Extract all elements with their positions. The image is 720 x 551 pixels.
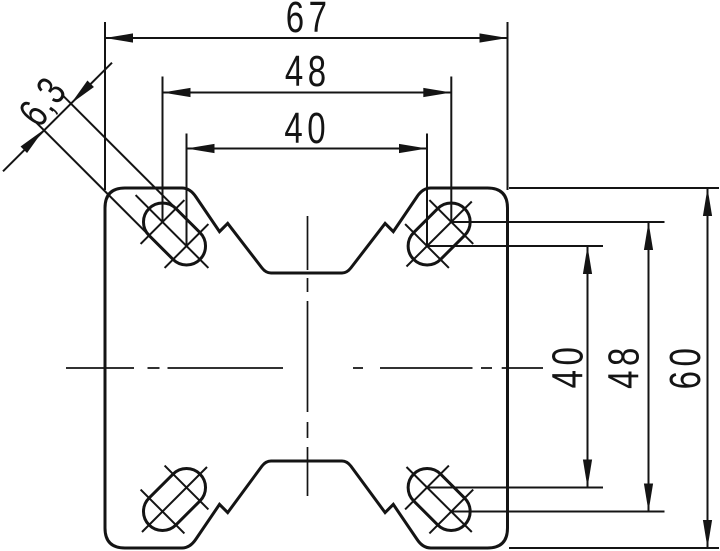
arrow 48 left bbox=[163, 88, 191, 97]
svg-text:40: 40 bbox=[544, 343, 593, 389]
arrow v48 bottom bbox=[644, 484, 653, 512]
dim 48 line bbox=[163, 92, 452, 94]
dim 67 line bbox=[105, 37, 508, 39]
svg-text:48: 48 bbox=[600, 343, 649, 389]
right ext line 40 bottom bbox=[427, 487, 603, 489]
slot top-left bbox=[136, 195, 214, 273]
dim 40 line bbox=[187, 148, 428, 150]
slot TR axis line bbox=[407, 202, 472, 267]
slot bottom-right bbox=[400, 461, 478, 539]
svg-text:60: 60 bbox=[662, 344, 711, 390]
slot BL cross at 40-center bbox=[165, 466, 209, 510]
slot bottom-left bbox=[136, 461, 214, 539]
dim 60 vertical line bbox=[707, 188, 709, 548]
dim 48 vertical line bbox=[648, 222, 650, 512]
slot BR axis line bbox=[407, 467, 472, 532]
centerline vertical bbox=[307, 216, 309, 496]
slot BL axis line bbox=[142, 467, 207, 532]
arrow v60 bottom bbox=[703, 520, 712, 548]
arrow 40 right bbox=[399, 144, 427, 153]
dim 67 ext line left bbox=[104, 22, 106, 190]
slot TL cross at 40-center bbox=[165, 224, 209, 268]
centerline horizontal bbox=[66, 367, 543, 369]
dim 6.3 ext line upper bbox=[62, 95, 176, 209]
arrow 67 right bbox=[480, 33, 508, 42]
svg-text:67: 67 bbox=[286, 0, 332, 42]
plate outline bbox=[105, 188, 508, 548]
arrow 40 left bbox=[187, 144, 215, 153]
dim 6.3 line bbox=[3, 63, 112, 172]
arrow v48 top bbox=[644, 222, 653, 250]
slot TL axis line bbox=[136, 195, 209, 268]
arrow v40 bottom bbox=[583, 460, 592, 488]
arrow 6.3 lower (points NE) bbox=[21, 127, 47, 153]
arrow 6.3 upper (points SW) bbox=[68, 81, 94, 107]
arrow v60 top bbox=[703, 188, 712, 216]
svg-text:48: 48 bbox=[285, 48, 331, 97]
right ext line bottom (60) bbox=[509, 547, 719, 549]
right ext line 48 bottom bbox=[451, 511, 664, 513]
slot BR cross at 40-center bbox=[405, 466, 449, 510]
slot BL cross at 48-center bbox=[141, 490, 185, 534]
dim 40 ext line left bbox=[186, 134, 188, 247]
arrow v40 top bbox=[583, 246, 592, 274]
slot top-right bbox=[400, 195, 478, 273]
dim 67 ext line right bbox=[507, 22, 509, 190]
slot BR cross at 48-center bbox=[429, 490, 473, 534]
arrow 67 left bbox=[105, 33, 133, 42]
right ext line 40 top bbox=[427, 245, 603, 247]
right ext line 48 top bbox=[451, 221, 664, 223]
dim 40 vertical line bbox=[587, 246, 589, 488]
slot TR cross at 40-center bbox=[405, 224, 449, 268]
dim 40 ext line right bbox=[426, 134, 428, 247]
arrow 48 right bbox=[423, 88, 451, 97]
slot TL cross at 48-center bbox=[141, 200, 185, 244]
dim 6.3 ext line lower bbox=[35, 121, 149, 235]
dim 48 ext line right bbox=[450, 77, 452, 223]
slot TR cross at 48-center bbox=[429, 200, 473, 244]
dim 48 ext line left bbox=[162, 77, 164, 223]
svg-text:40: 40 bbox=[284, 105, 330, 154]
right ext line top (60) bbox=[509, 187, 719, 189]
